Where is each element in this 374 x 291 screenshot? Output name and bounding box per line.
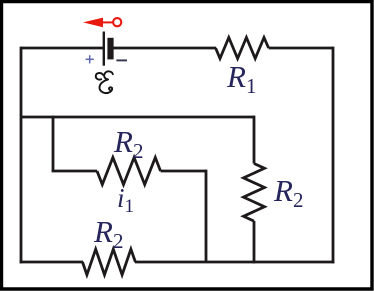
wire R1 to top-right corner (269, 47, 333, 50)
battery minus sign (116, 59, 127, 61)
wire bottom-right segment (135, 261, 334, 264)
red arrow indicator with circle (83, 18, 121, 28)
wire inner to R2 middle (52, 170, 97, 173)
resistor R1 (216, 38, 269, 59)
battery EMF source plates (104, 32, 114, 66)
wire middle horizontal y117 (21, 116, 254, 119)
resistor R2 bottom (83, 249, 136, 275)
wire battery to R1 (114, 47, 217, 50)
wire right edge (332, 47, 335, 264)
wire top-left segment to battery (21, 47, 104, 50)
resistor R2 middle (horizontal, i1) (97, 158, 161, 185)
wire inner vertical x206 (205, 170, 208, 262)
battery plus sign (86, 55, 94, 63)
svg-text:R2: R2 (273, 173, 303, 212)
wire right branch down to R2 (253, 116, 256, 164)
wire bottom-left segment (20, 261, 83, 264)
wire inner vertical x53 (52, 116, 55, 171)
svg-text:R2: R2 (113, 124, 143, 163)
wire left edge (20, 47, 23, 264)
resistor R2 right (vertical) (244, 164, 265, 222)
svg-text:R1: R1 (226, 59, 256, 98)
svg-text:i1: i1 (117, 183, 134, 217)
svg-text:R2: R2 (93, 214, 123, 253)
EMF script-E label (96, 71, 113, 93)
wire R2 right to bottom (253, 221, 256, 263)
wire R2 middle to inner drop (161, 170, 207, 173)
